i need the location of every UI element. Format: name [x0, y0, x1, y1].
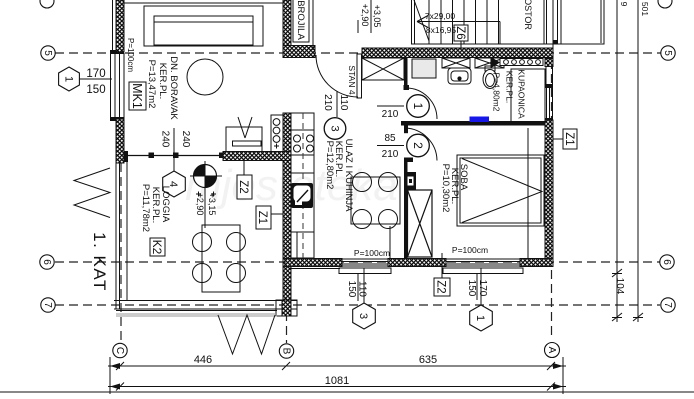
svg-text:1: 1 [63, 76, 75, 82]
svg-text:B: B [281, 348, 292, 355]
svg-text:KUPAONICA: KUPAONICA [517, 69, 527, 119]
svg-text:P=11,78m2: P=11,78m2 [140, 184, 151, 232]
svg-text:K2: K2 [150, 240, 164, 255]
svg-text:P=100cm: P=100cm [354, 248, 390, 258]
svg-text:5: 5 [662, 50, 673, 56]
svg-text:C: C [114, 347, 125, 354]
svg-text:Z1: Z1 [563, 132, 575, 145]
svg-text:150: 150 [466, 280, 477, 297]
svg-text:STAN 4: STAN 4 [347, 65, 357, 94]
svg-text:+2,90: +2,90 [360, 4, 370, 27]
svg-text:DN. BORAVAK: DN. BORAVAK [168, 56, 179, 120]
svg-text:Z1: Z1 [256, 211, 268, 224]
svg-text:1081: 1081 [325, 375, 349, 387]
svg-text:501: 501 [640, 2, 650, 16]
svg-text:6: 6 [41, 259, 52, 265]
svg-text:85: 85 [384, 133, 396, 144]
svg-text:OSTOR: OSTOR [523, 0, 533, 30]
svg-text:1. KAT: 1. KAT [90, 232, 109, 292]
svg-text:Z2: Z2 [435, 280, 447, 293]
svg-text:1: 1 [474, 315, 486, 321]
svg-text:110: 110 [338, 95, 349, 111]
svg-text:BROJILA: BROJILA [295, 0, 306, 40]
svg-text:P=13,47m2: P=13,47m2 [146, 60, 157, 109]
svg-text:P=4,80m2: P=4,80m2 [492, 73, 502, 112]
svg-text:3: 3 [357, 313, 369, 319]
svg-text:P=100cm: P=100cm [452, 245, 488, 255]
svg-text:+2,90: +2,90 [195, 193, 205, 216]
svg-text:210: 210 [382, 109, 399, 120]
svg-text:9: 9 [619, 2, 629, 7]
svg-text:150: 150 [346, 281, 357, 298]
svg-text:446: 446 [194, 354, 212, 366]
svg-text:240: 240 [180, 131, 191, 148]
svg-text:KER.PL.: KER.PL. [505, 71, 515, 104]
svg-text:170: 170 [477, 280, 488, 297]
svg-text:8x16,95: 8x16,95 [426, 25, 457, 35]
svg-text:+3,15: +3,15 [207, 193, 217, 216]
svg-text:P=10,30m2: P=10,30m2 [440, 164, 451, 213]
svg-text:+3,05: +3,05 [372, 5, 382, 28]
svg-text:7: 7 [662, 302, 673, 308]
svg-text:4: 4 [167, 181, 179, 187]
svg-text:7: 7 [42, 302, 53, 308]
svg-text:104: 104 [614, 278, 625, 295]
svg-text:P=100cm: P=100cm [126, 38, 135, 72]
svg-text:KER.PL.: KER.PL. [157, 63, 168, 99]
svg-text:A: A [546, 347, 557, 354]
svg-text:6: 6 [661, 259, 672, 265]
svg-text:240: 240 [160, 131, 171, 148]
svg-text:5: 5 [42, 50, 53, 56]
svg-text:Z2: Z2 [237, 180, 249, 193]
svg-text:210: 210 [382, 149, 399, 160]
svg-text:MK1: MK1 [130, 83, 144, 109]
svg-text:3: 3 [329, 125, 341, 131]
svg-text:210: 210 [322, 94, 333, 111]
svg-text:7x29,00: 7x29,00 [425, 11, 456, 21]
svg-text:P=12,80m2: P=12,80m2 [324, 141, 335, 190]
svg-text:170: 170 [86, 68, 105, 80]
svg-text:635: 635 [419, 354, 437, 366]
svg-text:110: 110 [357, 281, 368, 297]
svg-text:1: 1 [411, 103, 425, 110]
svg-text:150: 150 [86, 84, 105, 96]
svg-text:2: 2 [411, 142, 425, 149]
